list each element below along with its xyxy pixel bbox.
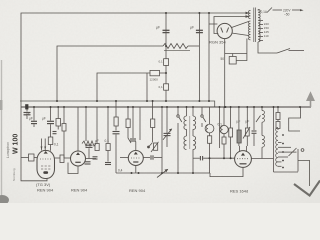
bus line 2 (main bus) bbox=[21, 106, 311, 108]
wire: V1 cathode return bbox=[21, 158, 47, 181]
capacitor C5 chain bbox=[50, 107, 52, 121]
tube V1 envelope bbox=[37, 151, 55, 179]
resistor box R13 bbox=[164, 59, 169, 66]
svg-text:Lumophon: Lumophon bbox=[6, 142, 10, 158]
resistor R-ant zigzag bbox=[163, 44, 188, 49]
tube V4 grid dots bbox=[237, 158, 249, 160]
capacitor C4 plates bbox=[31, 120, 37, 122]
resistor box R2 bbox=[62, 124, 66, 132]
tube V3 bottom lead bbox=[135, 166, 137, 174]
svg-text:µF: µF bbox=[95, 139, 99, 143]
resistor box R14 bbox=[164, 84, 169, 90]
switch contact at L3a bbox=[256, 116, 261, 123]
tap coil ladder bbox=[276, 128, 278, 167]
svg-text:µF: µF bbox=[29, 117, 33, 121]
switch arrow on mains bbox=[267, 8, 272, 13]
transformer taps bbox=[259, 20, 263, 22]
scan smudge bottom-left bbox=[0, 195, 9, 205]
pickup loop bbox=[289, 107, 301, 131]
tube V4 right lead bbox=[251, 158, 273, 160]
wire: mains top with fuse bbox=[258, 9, 260, 12]
selector arm bbox=[289, 148, 297, 156]
tube V2 bottom lead bbox=[68, 163, 78, 174]
tube V1 anode mark bbox=[44, 151, 48, 154]
series resistor box on loop bbox=[150, 70, 160, 75]
svg-text:REN 904: REN 904 bbox=[129, 188, 146, 193]
volume pot arrow bbox=[157, 170, 168, 178]
IF transformer IFT1 left coil bbox=[184, 116, 187, 130]
wire: B+ feed drop bbox=[208, 13, 210, 101]
transformer T1 primary winding lower bbox=[249, 21, 251, 40]
resistor box R8 bbox=[208, 136, 212, 144]
switch S-mains blade bbox=[277, 49, 290, 54]
wave trap coil L2 bbox=[220, 125, 228, 133]
scan smudge left mid bbox=[0, 100, 3, 110]
rectifier tube U5 envelope bbox=[217, 23, 232, 38]
resistor box R1 bbox=[56, 119, 61, 127]
transformer T1 core bbox=[253, 8, 255, 43]
capacitor C2 lead bbox=[198, 13, 200, 101]
capacitor C1 lead bbox=[165, 13, 167, 59]
svg-text:REN 904: REN 904 bbox=[37, 188, 54, 193]
wire: left border drop to V1 bbox=[20, 101, 22, 158]
resistor underline bbox=[164, 50, 190, 52]
tube V1 heater pin arrows bbox=[41, 139, 43, 151]
svg-text:0,1A: 0,1A bbox=[261, 10, 268, 14]
bus line 1 (grid bus) bbox=[20, 101, 215, 107]
oscillator coil L1 bbox=[205, 124, 214, 133]
capacitor C4b plates bbox=[53, 131, 57, 133]
wire: outer antenna loop top bbox=[21, 13, 249, 101]
svg-text:µF: µF bbox=[42, 117, 46, 121]
tube V4 bottom lead bbox=[210, 167, 243, 176]
tube V4 envelope bbox=[235, 151, 252, 168]
wire: mains line segment bbox=[273, 9, 283, 11]
wire: rectifier anode leads to HV winding bbox=[232, 22, 249, 28]
resistor box R5 bbox=[106, 144, 110, 151]
capacitor C7b plates bbox=[93, 156, 98, 158]
AF coupling wire to V4 grid bbox=[193, 157, 200, 159]
tube V1 grid dots bbox=[40, 158, 52, 160]
wire: mains line segment 2 bbox=[292, 9, 301, 11]
tube V3 grid dots bbox=[131, 157, 141, 159]
svg-text:0,1: 0,1 bbox=[159, 60, 164, 64]
detector chain x116 bbox=[115, 101, 117, 117]
IFT core line bbox=[189, 116, 191, 149]
tube V3 anode mark bbox=[134, 152, 138, 155]
wire: second antenna loop bbox=[57, 46, 163, 101]
tube V2 right lead bbox=[86, 158, 97, 160]
terminal circle bbox=[301, 149, 304, 152]
capacitor C8 plates bbox=[105, 162, 111, 164]
tube V2 anode mark bbox=[76, 152, 80, 155]
tube V4 cathode bar bbox=[240, 163, 247, 165]
IF transformer IFT2 left coil bbox=[184, 136, 187, 150]
svg-text:W 100: W 100 bbox=[12, 134, 19, 154]
speaker tap ladder feed bbox=[273, 107, 275, 172]
svg-text:µF: µF bbox=[237, 120, 241, 124]
grid stopper box V1 bbox=[29, 154, 35, 161]
svg-text:Nürnberg: Nürnberg bbox=[12, 168, 16, 181]
capacitor C7 plates bbox=[86, 144, 93, 146]
tap stubs bbox=[278, 142, 282, 144]
svg-text:110: 110 bbox=[264, 34, 269, 38]
IF transformer IFT1 right coil bbox=[193, 116, 196, 130]
svg-text:12000: 12000 bbox=[150, 78, 159, 82]
wire drop x34 bbox=[33, 107, 35, 121]
tube V2 envelope bbox=[71, 151, 86, 166]
fuse blob bbox=[25, 104, 28, 109]
band switch S3 bbox=[201, 107, 203, 115]
wire: detector line bbox=[116, 172, 195, 174]
resistor box R10 bbox=[237, 130, 241, 143]
tube V3 envelope bbox=[128, 151, 143, 166]
wire: rectifier output drop bbox=[224, 39, 226, 107]
resistor box R7 bbox=[151, 119, 155, 128]
ladder bottom tie bbox=[274, 171, 299, 173]
tube V4 top leads bbox=[239, 146, 241, 151]
transformer T1 primary winding upper bbox=[249, 11, 251, 19]
heater dropper box bbox=[225, 53, 247, 55]
resistor box R4 bbox=[95, 144, 99, 151]
variable capacitor arrow bbox=[163, 129, 172, 140]
tube V3 right lead + series cap bbox=[143, 157, 150, 159]
wire: third antenna loop bbox=[97, 73, 150, 101]
svg-text:0,1: 0,1 bbox=[159, 85, 164, 89]
grid leak box V1 bbox=[48, 137, 53, 145]
svg-text:0,1: 0,1 bbox=[54, 143, 59, 147]
wire: mains bottom right bbox=[289, 50, 305, 52]
tube V1 side leads bbox=[55, 157, 61, 159]
resistor box R9 bbox=[229, 128, 233, 137]
arrowhead wire A bbox=[246, 12, 250, 15]
arrowhead wire B bbox=[246, 15, 250, 18]
svg-text:REN 904: REN 904 bbox=[71, 188, 88, 193]
resistor box R12 bbox=[276, 122, 280, 129]
selector output drop bbox=[297, 149, 299, 172]
wire: detector line extension bbox=[195, 172, 210, 174]
transformer T1 secondary winding bbox=[258, 10, 260, 42]
tube V2 cathode bar bbox=[75, 161, 80, 163]
scan edge artifact left bbox=[1, 60, 2, 203]
resistor box R11 bbox=[276, 113, 280, 120]
svg-text:50: 50 bbox=[221, 57, 225, 61]
tube V4 anode mark bbox=[241, 153, 245, 156]
tube V3 cathode bar bbox=[133, 161, 138, 163]
svg-text:~50: ~50 bbox=[284, 13, 290, 17]
wire: rectifier filament return bbox=[214, 17, 249, 34]
resistor box R6 bbox=[126, 119, 130, 128]
contact S1 bbox=[148, 146, 150, 148]
capacitor C2 plates bbox=[196, 29, 203, 31]
output choke L3a bbox=[261, 107, 263, 111]
svg-text:µF: µF bbox=[156, 26, 160, 30]
output choke L3b bbox=[262, 136, 265, 148]
wire drop x162 bbox=[161, 107, 163, 173]
variable capacitor plates bbox=[164, 132, 171, 134]
zigzag resistor R3 bbox=[82, 141, 96, 146]
band switch S2 bbox=[177, 107, 179, 115]
tube V3 left lead bbox=[120, 157, 128, 159]
tube V1 heater blob bbox=[43, 171, 48, 174]
rectifier anode marks bbox=[221, 28, 223, 33]
potentiometer P1 bbox=[154, 143, 158, 150]
capacitor C6 right of V2 bbox=[85, 161, 91, 163]
svg-text:(TG 3V): (TG 3V) bbox=[36, 182, 51, 187]
svg-text:RES 164d: RES 164d bbox=[230, 189, 248, 194]
resistor box R2b between V1 V2 bbox=[60, 155, 64, 163]
potentiometer P2 bbox=[245, 128, 249, 136]
tube V2 top lead bbox=[77, 107, 79, 151]
capacitor C10 bbox=[252, 130, 257, 132]
svg-text:RGN 354: RGN 354 bbox=[209, 40, 226, 45]
series capacitor C11 bbox=[199, 156, 201, 160]
wire: mains bottom from winding bbox=[258, 42, 277, 53]
svg-text:µF: µF bbox=[246, 120, 250, 124]
tube V3 top lead bbox=[135, 142, 137, 151]
wire drop x133 + cap C9 bbox=[132, 107, 134, 138]
tube V1 grid dashes bbox=[41, 165, 52, 167]
capacitor C3 bbox=[26, 107, 28, 112]
capacitor C1 plates bbox=[163, 29, 170, 31]
wire after resistor bbox=[188, 45, 199, 47]
svg-text:0,1: 0,1 bbox=[105, 139, 110, 143]
speaker arrow (big) bbox=[294, 181, 320, 196]
svg-text:µF: µF bbox=[26, 112, 30, 116]
wire: rectifier filament top lead bbox=[209, 23, 217, 25]
IF transformer IFT2 right coil bbox=[193, 136, 196, 150]
speaker wire bbox=[298, 161, 310, 187]
antenna arrow up bbox=[307, 93, 314, 108]
svg-text:0,1: 0,1 bbox=[218, 123, 223, 127]
tap selector wires bbox=[282, 146, 292, 148]
svg-text:0,4: 0,4 bbox=[118, 169, 123, 173]
svg-text:µF: µF bbox=[190, 26, 194, 30]
